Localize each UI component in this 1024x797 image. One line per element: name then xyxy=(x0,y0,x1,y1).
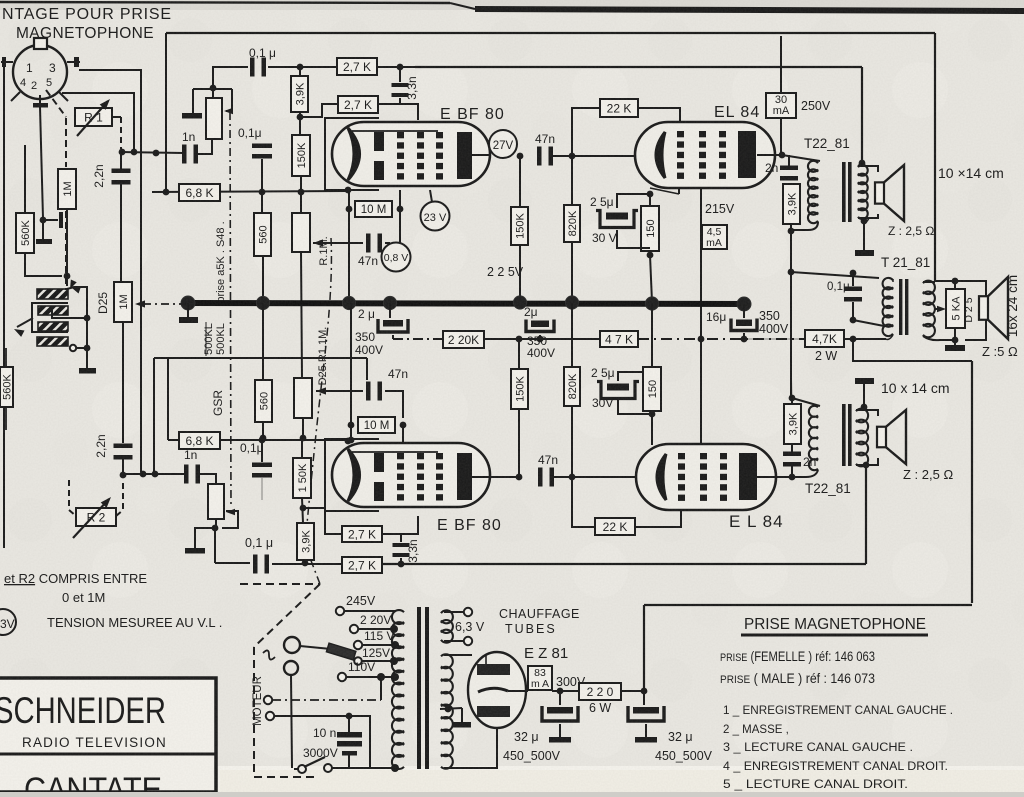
resistor 1M upper xyxy=(58,169,76,209)
resistor 820K lower xyxy=(564,367,580,406)
node 10M lower left xyxy=(348,422,355,429)
node junction x43 xyxy=(40,217,47,224)
tube EBF 80 shield box xyxy=(325,118,379,190)
ground bus xyxy=(179,317,198,323)
wire sec bottom to speaker lower xyxy=(856,464,866,466)
switch contact xyxy=(324,764,332,772)
wire 300V to 220 xyxy=(560,690,579,692)
node row339 x701 xyxy=(698,336,705,343)
capacitor 2n upper xyxy=(788,155,790,166)
R2 arrow xyxy=(73,499,109,538)
capacitor 2,2n lower xyxy=(114,444,133,449)
wire junction down to chassis xyxy=(42,220,44,239)
wire x154 down xyxy=(153,358,155,474)
R2 left dash link xyxy=(69,480,76,516)
tube EL 84 envelope xyxy=(635,122,775,188)
capacitor 0,1u top-line xyxy=(250,58,255,77)
speaker lower 10x14 xyxy=(877,427,886,448)
wire T21 vert to 3,9K lower xyxy=(791,320,792,398)
wire 2,7K second out to tube xyxy=(378,104,418,120)
node row junction xyxy=(153,150,160,157)
resistor 2,7K lower first xyxy=(342,526,382,542)
tape head pole 3 xyxy=(38,322,68,331)
wire grid node lower down to 22K xyxy=(572,477,595,527)
resistor 150 lower xyxy=(643,367,661,411)
capacitor 16u xyxy=(743,304,745,318)
capacitor 47n cathode upper xyxy=(366,234,371,253)
resistor 220 6W xyxy=(579,683,621,700)
wire secondary to speaker top xyxy=(858,166,878,172)
wire 10n loop right xyxy=(349,716,370,768)
page top border xyxy=(0,2,450,3)
wire 4,7K right xyxy=(844,338,886,340)
node 6,8K left xyxy=(163,189,170,196)
R2 right dash link xyxy=(116,483,123,516)
ground speaker upper xyxy=(855,250,874,256)
wire B+ riser to y603 xyxy=(643,605,645,691)
resistor 6,8K upper xyxy=(179,184,220,201)
wire tap to ground xyxy=(461,708,463,722)
wiper wire upper xyxy=(231,89,233,111)
wire 2,7K lower first link xyxy=(303,508,342,534)
dash-dot rail prise a5K xyxy=(230,112,231,508)
EBF 80 grid dashes col 3 xyxy=(436,132,443,138)
wire 10M left down to bus xyxy=(348,209,350,302)
bus blob 652 xyxy=(645,297,658,310)
wire EL84 anode out upper xyxy=(757,154,782,156)
wire B+ right vertical x972 xyxy=(971,361,973,603)
arrow 5KA wiper xyxy=(937,306,946,312)
wire y358 lower frame xyxy=(154,357,367,359)
resistor 47K xyxy=(600,331,638,347)
wire EBF anode out upper xyxy=(471,154,491,156)
wire y603 to right xyxy=(644,604,972,606)
wire y67 mid xyxy=(268,66,337,68)
wire x168 riser 6,8K lower xyxy=(167,358,169,440)
capacitor 32u second xyxy=(643,691,645,705)
wire sec lower to speaker xyxy=(856,410,878,416)
node T21 feed xyxy=(788,269,795,276)
wire head lower pin xyxy=(70,345,76,351)
wire pot node ground lower xyxy=(195,528,215,548)
tube EZ 81 envelope xyxy=(468,652,526,728)
node head output xyxy=(84,315,91,322)
wire 4,7K left dashdot xyxy=(744,338,805,340)
wire tweeter bottom to speaker xyxy=(965,317,986,340)
node row339 x744 xyxy=(741,336,748,343)
dash-dot motor wire xyxy=(272,699,381,701)
HV center tap xyxy=(445,706,452,713)
wire junction to tap xyxy=(43,219,58,221)
resistor anon upper xyxy=(292,213,310,252)
dashed mains enclosure xyxy=(240,583,320,585)
transformer primary coil xyxy=(392,610,404,769)
wire y563 from pot xyxy=(215,562,250,564)
node sec bottom lower xyxy=(863,462,870,469)
wire 110V junction down xyxy=(380,677,382,700)
resistor 220K xyxy=(443,331,484,348)
wire grid node lower to tube xyxy=(572,476,637,478)
speaker upper 10x14 xyxy=(875,182,884,203)
wire 1n lower to pot xyxy=(199,474,216,484)
bus blob 390 xyxy=(383,296,396,309)
wire 47n lower out xyxy=(553,476,571,478)
resistor 2,7K lower second xyxy=(342,557,382,573)
capacitor 1n lower xyxy=(184,465,189,484)
wire pin5 to x134 xyxy=(62,93,134,152)
potentiometer hum lower xyxy=(208,484,224,519)
box 83 mA xyxy=(528,666,552,690)
wire 10M right to tube xyxy=(399,190,401,209)
wire 23V to tube xyxy=(430,190,432,202)
wire row339 dashdot right xyxy=(638,338,805,340)
wire pin3 right and down x141 xyxy=(79,70,141,472)
wire bottom row power xyxy=(328,767,395,769)
box 4,5 mA xyxy=(702,225,727,249)
mains plug pin 2 xyxy=(284,661,298,675)
wiper wire lower xyxy=(222,511,238,528)
wire 220V tap xyxy=(358,628,394,630)
tape head pole 4 xyxy=(37,337,68,346)
wire 30mA up to frame xyxy=(780,36,782,93)
transformer core xyxy=(417,607,421,769)
ground HV tap xyxy=(453,722,471,728)
node T22 lower sec top xyxy=(861,404,868,411)
wire 1M down xyxy=(66,209,68,275)
EBF 80 grid dashes col 3 xyxy=(436,453,443,459)
EBF 80 plate bars xyxy=(374,453,384,472)
node pot top xyxy=(210,85,217,92)
R1 right wire xyxy=(112,116,121,118)
wire 2,2n lower to row xyxy=(122,459,124,474)
resistor 2,7K upper second xyxy=(338,96,378,113)
wire cathode net to bus xyxy=(650,255,652,302)
wire T21 primary bottom to 4,7K xyxy=(886,335,893,340)
capacitor 32u first xyxy=(559,691,561,705)
wire 6,8K lower row xyxy=(168,439,348,441)
wire 30mA down to anode xyxy=(780,118,782,155)
ground pot upper xyxy=(182,113,202,119)
resistor 6,8K lower xyxy=(179,432,220,449)
node secondary top xyxy=(859,160,866,167)
wire anon box down across bus xyxy=(301,252,302,378)
node 560 lower top xyxy=(260,435,267,442)
terminal 115V xyxy=(354,641,362,649)
wire 2u second stub xyxy=(539,335,541,339)
wire secondary bottom xyxy=(858,214,878,218)
arrow cathode lower xyxy=(316,387,326,394)
wire cathode row upper xyxy=(313,242,363,244)
transformer HV secondary xyxy=(441,654,453,768)
fuse xyxy=(326,643,355,660)
bus ground stub xyxy=(187,303,189,317)
transformer T22 upper core xyxy=(842,162,846,222)
wire 2,2n to D25 box xyxy=(120,184,122,282)
wire 220K to node xyxy=(484,338,519,340)
resistor 150K mid xyxy=(511,369,528,409)
tube EL 84 envelope xyxy=(636,444,776,510)
arrow cathode upper xyxy=(313,239,323,246)
node row2 junction a xyxy=(120,472,127,479)
wire 245V tap xyxy=(344,610,395,612)
node 10M left xyxy=(346,206,353,213)
wire 2,7K out xyxy=(377,66,415,68)
wire HV top to EZ81 xyxy=(444,654,472,656)
wire 0,1u bottom to primary return xyxy=(853,320,884,326)
wire 10M left to tube box xyxy=(348,192,350,209)
wire T21 vert continue xyxy=(790,272,792,398)
capacitor 3,3n lower xyxy=(400,534,402,542)
resistor 560K lower xyxy=(0,367,13,407)
potentiometer hum upper xyxy=(206,98,222,139)
wire node to 5KA box xyxy=(954,281,956,289)
EBF 80 grid dashes col 2 xyxy=(417,132,424,138)
bus blob 744 xyxy=(737,297,751,311)
wire anode to T22 primary xyxy=(782,155,820,161)
node speaker bottom upper xyxy=(861,218,868,225)
wire pin1 to fuse xyxy=(300,646,331,649)
resistor 3,9K out lower xyxy=(784,404,801,444)
EL 84 grid dashes col 1 xyxy=(678,453,685,459)
bus thick line xyxy=(188,303,750,304)
tape head arrow xyxy=(17,318,33,327)
node 10n top xyxy=(346,713,353,720)
wire 47n to 0,8V xyxy=(385,242,390,244)
resistor 10M lower xyxy=(358,417,395,433)
meter circle 23V xyxy=(421,202,450,231)
capacitor 2,2n upper xyxy=(120,152,122,169)
wire D25 box down xyxy=(122,322,124,443)
resistor 3,9K upper xyxy=(291,76,308,112)
wire 47n to grid node xyxy=(552,155,571,157)
wire frame right x935 xyxy=(934,33,936,281)
node 3,9K lower bottom xyxy=(302,560,309,567)
EL 84 grid dashes col 2 xyxy=(699,131,706,137)
EL 84 anode plate xyxy=(738,131,756,178)
node 0,1u top xyxy=(850,270,857,277)
node col301 row xyxy=(298,189,305,196)
wire T21 feed row xyxy=(791,272,879,278)
switch pivot xyxy=(298,765,306,773)
tape head bracket xyxy=(32,303,68,332)
chassis bar xyxy=(36,239,52,244)
wire T22 lower primary bottom xyxy=(792,470,818,477)
wire EBF lower anode out xyxy=(471,476,519,478)
node 110V junction xyxy=(377,673,385,681)
EL 84 cathode crescent xyxy=(657,454,666,500)
node 1M/560K junction xyxy=(64,273,71,280)
wire pot top to node xyxy=(212,88,214,98)
wire junction row y474 xyxy=(123,473,186,475)
ground T22 lower xyxy=(855,378,874,384)
wire cathode to 150 top xyxy=(649,194,651,206)
wire secondary bottom to node xyxy=(923,336,955,340)
wire head to node xyxy=(52,310,87,318)
wire T21 secondary top xyxy=(892,279,894,282)
EBF 80 plate bars xyxy=(374,132,384,151)
resistor 150K pre lower xyxy=(293,458,311,498)
wire EL84 lower anode out xyxy=(757,476,792,478)
bus blob 520 xyxy=(513,296,526,309)
meter circle 27V xyxy=(489,130,517,158)
EBF 80 grid dashes col 1 xyxy=(397,453,404,459)
wire 560 to bus xyxy=(262,256,264,303)
bus start blob xyxy=(181,296,195,310)
wire sec top ground lower xyxy=(863,399,865,407)
wire x866 up to T22 lower xyxy=(865,465,867,564)
EBF 80 anode plate xyxy=(457,453,472,500)
wire 3,9K node to T21 row xyxy=(790,231,792,272)
tape head pole 2 xyxy=(38,306,68,315)
resistor 560 upper xyxy=(254,213,271,256)
wire 25u lower top xyxy=(618,372,643,381)
EBF 80 grid dashes col 1 xyxy=(397,132,404,138)
scan grain overlay xyxy=(0,0,1,1)
wire tweeter top to speaker xyxy=(955,281,986,300)
tube EBF 80 shield box xyxy=(325,439,379,511)
EL 84 grid dashes col 2 xyxy=(700,453,707,459)
node grid EL84 lower xyxy=(569,474,576,481)
wire pin1 down left edge xyxy=(3,62,5,548)
transformer T22 lower core xyxy=(842,404,846,466)
fuse link squiggle xyxy=(263,650,275,659)
tape head pole 1 xyxy=(37,289,68,299)
terminal motor 2 xyxy=(266,712,274,720)
resistor 4,7K 2W xyxy=(805,330,844,347)
resistor 3,9K out upper xyxy=(783,184,800,224)
wire head top to arrow node xyxy=(67,287,87,318)
R1 left dash-dot link xyxy=(46,90,66,117)
switch arm xyxy=(304,757,325,767)
capacitor electrolytic 2 5u lower xyxy=(597,382,639,399)
wire 25u bottom xyxy=(617,230,650,248)
wire 2,7K lower first out to tube xyxy=(382,516,418,534)
wire 2u to 220K row xyxy=(392,335,394,339)
wire 820K to bus xyxy=(571,242,573,302)
resistor 150K load upper xyxy=(511,207,528,245)
capacitor 2n lower xyxy=(791,444,793,452)
node anode lower xyxy=(789,474,796,481)
wire y563 mid xyxy=(272,563,342,565)
capacitor 0,1u T21 xyxy=(852,273,854,286)
capacitor 10n 3000V xyxy=(348,716,350,732)
capacitor 3,3n upper xyxy=(399,67,401,82)
tube EBF 80 envelope xyxy=(332,443,490,507)
bus blob 349 xyxy=(342,296,355,309)
node tweeter bottom xyxy=(952,337,959,344)
node B+ out xyxy=(641,688,648,695)
resistor 560K upper xyxy=(16,213,34,253)
node anode upper xyxy=(779,152,786,159)
wire 560K bottom xyxy=(25,253,62,276)
wire pot node to ground riser xyxy=(193,88,232,90)
node 0,1u bottom xyxy=(850,317,857,324)
wire secondary top to x862 xyxy=(858,163,862,166)
wire 115V tap xyxy=(362,644,395,646)
transformer T22 upper primary xyxy=(808,161,818,223)
potentiometer R1 xyxy=(75,108,112,126)
EL 84 cathode crescent xyxy=(656,132,665,178)
wire 10M lower right down to tube xyxy=(402,425,404,443)
ground 32u first xyxy=(549,737,571,743)
transformer T22 upper secondary xyxy=(858,165,868,219)
capacitor 0,1u grid upper xyxy=(261,125,263,143)
node cathode net lower bottom xyxy=(649,411,656,418)
resistor 820K upper xyxy=(564,205,580,242)
capacitor 0,1u line lower xyxy=(253,555,258,574)
EBF 80 grid rail xyxy=(352,451,438,453)
node head ground junction xyxy=(84,345,91,352)
bus blob 572 xyxy=(565,296,578,309)
wire cathode lower to bus xyxy=(651,303,653,367)
wire y563 long right xyxy=(382,563,866,565)
capacitor 47n coupling lower xyxy=(538,468,543,487)
resistor 10M upper xyxy=(355,201,392,217)
EL 84 grid dashes col 3 xyxy=(719,131,726,137)
wire 22K to tube g2 xyxy=(638,108,680,122)
socket pin stubs xyxy=(1,61,13,63)
EL 84 anode plate xyxy=(739,453,757,500)
meter circle 23V note xyxy=(0,609,16,635)
wire 820K down xyxy=(571,156,573,205)
EL 84 grid dashes col 3 xyxy=(720,453,727,459)
terminal motor 1 xyxy=(264,696,272,704)
node col302 lower xyxy=(300,435,307,442)
node 27V xyxy=(517,153,524,160)
R1 right dash link xyxy=(120,117,122,149)
capacitor 2u first xyxy=(389,303,391,318)
capacitor 47n cathode lower xyxy=(366,382,371,401)
wire grid node to tube xyxy=(572,155,634,157)
wire 0,1u lower to row xyxy=(261,440,263,462)
wire speaker return to ground xyxy=(863,221,865,250)
resistor 22K upper xyxy=(600,99,638,117)
wire 560K column xyxy=(24,145,26,213)
capacitor 1n upper xyxy=(182,145,187,164)
node cathode net bottom upper xyxy=(647,252,654,259)
wire frame top xyxy=(166,32,935,34)
wire 22K lower to tube xyxy=(635,510,681,527)
node 10M right xyxy=(397,206,404,213)
dash-dot curve R.1M. xyxy=(305,238,331,584)
wire 0,1u to 6,8K row xyxy=(261,159,263,192)
wire pot lower bottom node xyxy=(215,519,217,528)
transformer T22 lower secondary xyxy=(856,409,868,467)
meter circle 0,8V xyxy=(382,243,411,272)
node grid EL84 upper xyxy=(569,153,576,160)
box 30 mA xyxy=(766,93,796,118)
tap bar xyxy=(59,212,63,228)
EBF 80 cathode crescent xyxy=(348,449,360,501)
EZ 81 anode plate bottom xyxy=(477,706,510,717)
tube EBF 80 envelope xyxy=(332,122,490,186)
resistor 1M D25 xyxy=(114,282,132,322)
wire 27V node down xyxy=(519,156,521,207)
node lower anode xyxy=(516,474,523,481)
EL 84 grid dashes col 1 xyxy=(677,131,684,137)
node R1 wire junction xyxy=(131,149,138,156)
resistor 150K pre upper xyxy=(292,135,310,176)
wire 220 out xyxy=(621,690,644,692)
transformer T22 lower primary xyxy=(809,406,818,470)
wire cathode lower net xyxy=(651,411,653,445)
wire pin2 down to switch xyxy=(291,675,292,768)
node tweeter top xyxy=(952,278,959,285)
node below 3,9K xyxy=(297,114,304,121)
wire fuse out to 125V tap xyxy=(362,660,393,662)
EBF 80 anode plate xyxy=(457,132,472,179)
speaker tweeter 16x24 xyxy=(979,296,988,320)
